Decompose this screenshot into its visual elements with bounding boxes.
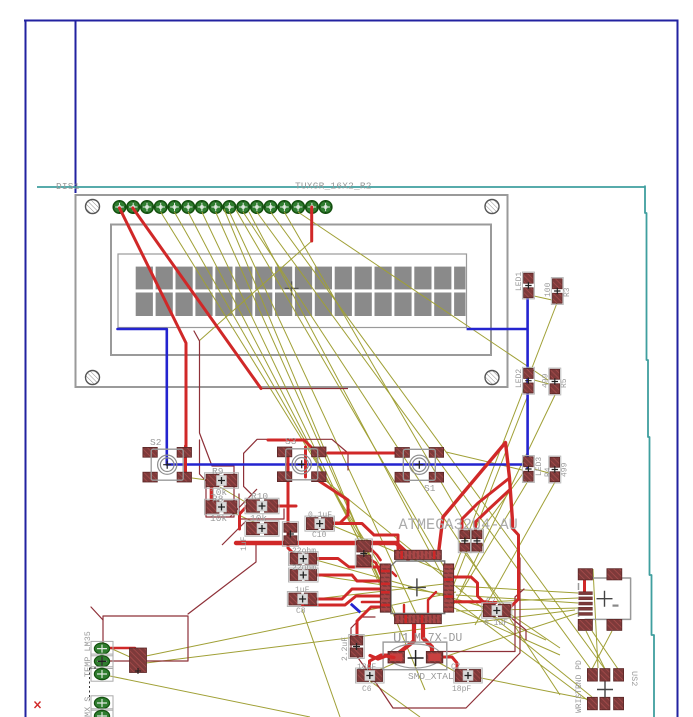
wire top: C10 to MCU top (red) bbox=[332, 524, 399, 550]
wire top: MCU inner stub c (red) bbox=[428, 592, 436, 614]
connector USB outline bbox=[585, 578, 631, 619]
svg-text:0.1uF: 0.1uF bbox=[484, 619, 508, 628]
wire top: R10 left down (red) bbox=[240, 506, 248, 529]
svg-text:18pF: 18pF bbox=[452, 685, 471, 694]
USB polarity mark bbox=[613, 605, 619, 607]
svg-text:R10: R10 bbox=[251, 491, 268, 502]
wire top: LCD pad15 stub (red) bbox=[310, 207, 313, 241]
wire top: C6 to crystal (red) bbox=[370, 655, 393, 670]
wire top: 22ohm-a to MCU (red) bbox=[315, 559, 381, 568]
svg-text:10k: 10k bbox=[210, 513, 227, 524]
capacitor C6 18pF bbox=[356, 668, 385, 683]
crystal pad red overlays bbox=[390, 653, 403, 661]
polygon outline crystal region (maroon) bbox=[351, 558, 520, 708]
airwires ratsnest (unrouted) bbox=[110, 209, 618, 717]
U1 right pad column bbox=[380, 550, 453, 624]
svg-text:S3: S3 bbox=[285, 436, 297, 447]
svg-text:R4: R4 bbox=[544, 467, 553, 477]
resistor R4 499 bbox=[549, 456, 561, 483]
wire top: LCD pad1 to S2 (red) bbox=[120, 208, 187, 452]
wire top: MCU to crystal left (red) bbox=[396, 623, 414, 656]
wire top: S3-S1 (red) bbox=[328, 452, 400, 455]
U1 center cross bbox=[408, 578, 426, 596]
wire top: C2 right up (red) bbox=[510, 529, 519, 609]
connector bottom-left pads bbox=[91, 696, 113, 717]
wire top: LM35 to U-part (red) bbox=[104, 648, 135, 655]
wire top: cap C4 up (red) bbox=[476, 490, 510, 530]
capacitor C10 0.1uF bbox=[305, 516, 335, 531]
LCD mounting hole top-left bbox=[86, 200, 100, 214]
LCD module DIS1 outline bbox=[76, 195, 508, 387]
capacitor (vertical, mid) bbox=[282, 522, 298, 547]
polygon outline right of crystal (maroon) bbox=[437, 589, 524, 652]
svg-text:LED2: LED2 bbox=[515, 369, 524, 388]
svg-text:R3: R3 bbox=[563, 287, 572, 297]
svg-text:1uF: 1uF bbox=[240, 536, 249, 551]
svg-text:S2: S2 bbox=[150, 437, 162, 448]
wire top: C8 to MCU (red) bbox=[315, 589, 381, 599]
wire top: MCU to crystal right (red) bbox=[423, 623, 432, 655]
US2 center cross bbox=[597, 682, 613, 698]
capacitor 2.2uF (vertical) bbox=[349, 635, 365, 659]
wire top: R9-R8 left (red) bbox=[210, 479, 214, 511]
svg-text:R9: R9 bbox=[212, 466, 224, 477]
USB mount pad bottom-left bbox=[578, 619, 592, 630]
capacitor C7 18pF bbox=[454, 668, 483, 683]
LCD pin header pads 1-16 bbox=[113, 201, 332, 214]
svg-text:R8: R8 bbox=[212, 494, 224, 505]
svg-text:18pF: 18pF bbox=[357, 663, 376, 672]
capacitor C3 (vertical pair left) bbox=[458, 529, 471, 553]
wire top: 22ohm-b to MCU (red) bbox=[315, 575, 381, 581]
wire top: LCD pad2 down (red) bbox=[133, 208, 261, 389]
wire top: main bus to MCU top (red) bbox=[236, 543, 408, 559]
svg-text:MX_S: MX_S bbox=[83, 697, 93, 717]
svg-text:0.1uF: 0.1uF bbox=[308, 511, 332, 520]
svg-text:R5: R5 bbox=[560, 378, 569, 388]
wire sheet-frame top (navy) bbox=[24, 20, 679, 22]
resistor R5 499 bbox=[549, 368, 561, 395]
LED LED1 bbox=[522, 272, 534, 299]
svg-text:22ohm: 22ohm bbox=[292, 547, 316, 556]
sensor TEMP_LM35 pads bbox=[91, 641, 113, 681]
polygon outline around R9/R8 (maroon) bbox=[194, 331, 234, 517]
wire top: cap C3 up (red) bbox=[462, 478, 510, 530]
wire board-outline horizontal (teal) bbox=[37, 186, 645, 188]
svg-text:499: 499 bbox=[561, 462, 570, 477]
switch S3 bbox=[277, 436, 326, 482]
svg-text:1uF: 1uF bbox=[295, 586, 310, 595]
wire bottom-layer: LED1-LED2-LED3 column (blue) bbox=[526, 293, 529, 469]
svg-text:TUXGR_16X2_R2: TUXGR_16X2_R2 bbox=[295, 181, 372, 192]
op-amp U1 ATMEGA32U4-AU package outline bbox=[391, 561, 445, 614]
wire top: MCU right to C2 (red) bbox=[454, 577, 496, 603]
svg-text:C2: C2 bbox=[486, 597, 496, 606]
svg-text:LED1: LED1 bbox=[515, 272, 524, 291]
capacitor C5 (left of MCU, vertical) bbox=[355, 539, 372, 568]
svg-text:LED3: LED3 bbox=[535, 457, 544, 476]
wire bottom-layer: LCD to S2 (blue) bbox=[118, 329, 167, 465]
svg-text:499: 499 bbox=[542, 373, 551, 388]
svg-text:C8: C8 bbox=[296, 607, 306, 616]
wire top: S2 right pads (red) bbox=[184, 446, 187, 480]
svg-text:US2: US2 bbox=[629, 671, 639, 686]
USB center cross bbox=[597, 591, 613, 607]
wire bottom-layer: stub near MCU (blue) bbox=[351, 604, 361, 613]
LED LED3 bbox=[522, 456, 534, 483]
wire top: big V via caps (red) bbox=[439, 443, 513, 550]
USB mount pad top-left bbox=[578, 569, 592, 580]
LCD center origin cross bbox=[285, 281, 299, 295]
wire top: USB shield stub (red) bbox=[583, 575, 586, 592]
svg-text:C10: C10 bbox=[312, 531, 327, 540]
resistor 22ohm (upper) bbox=[289, 552, 319, 566]
connector US2 pads bbox=[587, 669, 623, 710]
USB mount pad bottom-right bbox=[607, 619, 622, 630]
wire bottom-layer: switch row S2-S3-S1-LED3 (blue) bbox=[167, 463, 528, 466]
crystal Q1 SMD_XTAL body bbox=[383, 642, 447, 670]
crystal center cross bbox=[408, 650, 424, 666]
wire top: S3 to C10 (red) bbox=[313, 477, 348, 523]
via-x mark bottom-left (red) bbox=[35, 702, 41, 709]
polygon outline around S3 (maroon) bbox=[244, 439, 348, 470]
keepout dotted line bbox=[89, 668, 91, 700]
wire top: MCU inner stub a (red) bbox=[381, 572, 396, 576]
wire top: C5b to MCU stub (red) bbox=[371, 560, 381, 574]
svg-text:C6: C6 bbox=[362, 685, 372, 694]
capacitor 1uF (left of R10) bbox=[245, 521, 279, 537]
LED LED2 bbox=[522, 367, 534, 394]
resistor R10 10k bbox=[245, 498, 279, 514]
svg-text:2.2uF: 2.2uF bbox=[341, 637, 350, 661]
wire top: MCU right pad to C2 direct (red) bbox=[454, 602, 490, 604]
resistor R3 100 bbox=[551, 278, 563, 305]
crystal pad right bbox=[426, 651, 443, 663]
LCD display opening bbox=[118, 254, 467, 328]
USB mount pad top-right bbox=[607, 569, 622, 580]
wire top: S3 right pads (red) bbox=[304, 447, 307, 477]
capacitor C4 (vertical pair right) bbox=[471, 529, 484, 553]
svg-text:ATMEGA32U4-AU: ATMEGA32U4-AU bbox=[399, 516, 518, 534]
USB signal pads bbox=[579, 592, 593, 616]
polygon outline around R10 (maroon) bbox=[239, 494, 284, 519]
capacitor C8 bbox=[287, 592, 318, 607]
polygon outline LM35 box (maroon) bbox=[103, 616, 188, 661]
switch S2 bbox=[143, 437, 192, 482]
wire sheet-frame inner vertical (navy) bbox=[75, 20, 77, 194]
wire sheet-frame left (navy) bbox=[25, 20, 27, 717]
polygon outline LCD-bottom (maroon) bbox=[261, 388, 348, 390]
wire top: crystal to C7 (red) bbox=[440, 657, 457, 669]
capacitor C2 0.1uF bbox=[482, 603, 512, 619]
wire board-outline right vertical (teal) bbox=[645, 186, 654, 717]
wire top: R10 right stub (red) bbox=[278, 505, 297, 508]
resistor R8 10k bbox=[205, 499, 239, 515]
crystal pad left bbox=[388, 651, 405, 663]
switch S1 bbox=[395, 448, 444, 495]
wire top: S3 left pads down to R-22ohm (red) bbox=[288, 452, 293, 553]
wire top: 2.2uF to MCU (red) bbox=[357, 607, 381, 638]
wire top: S3 feed (red) bbox=[268, 440, 311, 447]
IC U3 (next to LM35) bbox=[130, 648, 147, 673]
svg-text:22ohm: 22ohm bbox=[292, 564, 316, 573]
resistor R9 10k bbox=[205, 473, 239, 489]
wire top: C5 to MCU stub (red) bbox=[371, 549, 381, 560]
svg-text:M-7X-DU: M-7X-DU bbox=[414, 632, 462, 645]
LCD bezel outline bbox=[111, 225, 491, 356]
wire bottom-layer: LCD right to LED column (blue) bbox=[467, 328, 528, 331]
svg-text:DIS1: DIS1 bbox=[56, 181, 80, 192]
LCD character blocks bbox=[136, 267, 466, 316]
svg-text:S1: S1 bbox=[424, 483, 436, 494]
svg-text:SMD_XTAL: SMD_XTAL bbox=[408, 671, 454, 682]
svg-text:TEMP_LM35: TEMP_LM35 bbox=[83, 631, 93, 677]
wire sheet-frame right (navy) bbox=[677, 20, 679, 717]
wire top: left pad entry (red) bbox=[362, 601, 381, 604]
svg-text:100: 100 bbox=[544, 282, 553, 297]
polygon outline C2 tail (maroon) bbox=[510, 617, 526, 640]
svg-text:WRISTBND PD: WRISTBND PD bbox=[575, 660, 584, 713]
polygon outline caps-left diagonals (maroon) bbox=[230, 489, 257, 517]
resistor 22ohm (lower) bbox=[289, 568, 319, 582]
wire top: C8b to MCU (red) bbox=[303, 596, 381, 605]
wire top: MCU inner stub b (red) bbox=[403, 605, 405, 614]
